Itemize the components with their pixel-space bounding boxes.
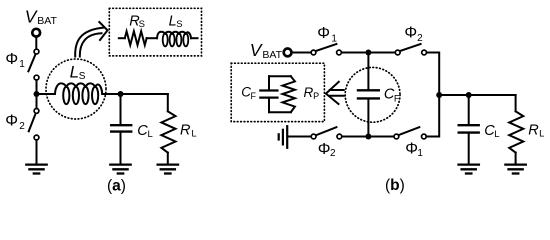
node B junction (CL tap) (118, 91, 124, 97)
label VBAT (a) (25, 6, 58, 27)
capacitor CF top plate (358, 89, 379, 91)
capacitor CL (b) top plate (459, 124, 479, 126)
svg-text:R: R (180, 123, 191, 139)
svg-text:BAT: BAT (262, 49, 282, 61)
switch PHI1 bottom (b) right contact (422, 134, 427, 139)
capacitor CF (box) top plate (260, 89, 277, 91)
switch PHI1 top (b) left contact (311, 50, 316, 55)
switch PHI2 top (b) left contact (395, 50, 400, 55)
label RL (b) (528, 123, 544, 140)
wire CL to ground (120, 133, 122, 164)
svg-text:1: 1 (19, 59, 25, 70)
capacitor CF (box) top lead (268, 76, 270, 89)
label PHI1 top (b) (317, 25, 337, 45)
capacitor CF (box) bottom plate (260, 96, 277, 98)
svg-text:Φ: Φ (404, 25, 417, 42)
label PHI2 (a) (5, 113, 25, 132)
wire node A to PHI2 (36, 94, 38, 108)
svg-text:L: L (70, 63, 79, 82)
label RL (a) (180, 123, 197, 140)
capacitor CL (a) bottom plate (111, 130, 131, 132)
wire RL to ground (167, 153, 169, 164)
double arrow shaft lower (330, 95, 344, 97)
dotted circle around CF (345, 67, 400, 122)
svg-text:Φ: Φ (405, 141, 418, 158)
svg-text:R: R (304, 85, 314, 100)
sideways ground (b) mid bar (282, 130, 284, 145)
wire corner down to RL (a) (167, 94, 169, 111)
wire CF branch bottom (367, 100, 369, 137)
svg-text:BAT: BAT (37, 15, 57, 27)
wire ground to PHI2 bottom (288, 136, 311, 138)
ground under CL (a) (110, 165, 130, 174)
label LS in box (169, 14, 183, 31)
arrow inner arc (80, 33, 102, 56)
wire CL (b) to ground (468, 134, 470, 164)
label CF in box (b) (241, 85, 256, 101)
switch PHI1 (a) top contact (34, 49, 39, 54)
box network bottom rail (269, 111, 291, 113)
label CL (a) (137, 123, 153, 140)
svg-text:(a): (a) (107, 177, 126, 194)
wire CF branch top (367, 53, 369, 90)
terminal VBAT (a) (32, 29, 40, 37)
switch PHI2 top (b) blade (400, 44, 421, 51)
switch PHI2 top (b) right contact (422, 50, 427, 55)
svg-text:L: L (148, 129, 153, 140)
svg-text:S: S (139, 19, 145, 30)
wire node A to inductor LS (37, 93, 56, 95)
wire terminal to PHI1 top (292, 52, 311, 54)
terminal VBAT (b) (284, 49, 292, 57)
wire box left to RS (119, 37, 125, 39)
switch PHI2 bottom (b) left contact (311, 134, 316, 139)
label VBAT (b) (250, 40, 283, 61)
wire PHI2 to ground (36, 140, 38, 163)
switch PHI2 bottom (b) right contact (337, 134, 342, 139)
label CF in circle (b) (384, 87, 400, 105)
node CF bottom junction (365, 134, 371, 140)
wire coil to box right (191, 37, 198, 39)
svg-text:Φ: Φ (317, 25, 330, 42)
switch PHI1 bottom (b) blade (399, 127, 420, 135)
wire PHI1 to node A (36, 80, 38, 94)
svg-text:S: S (79, 71, 86, 82)
wire RS to LS coil (147, 37, 157, 39)
wire PHI2 bottom to PHI1 bottom (342, 136, 394, 138)
svg-text:L: L (539, 128, 544, 139)
wire PHI2 to right bus corner (427, 53, 440, 96)
svg-text:2: 2 (19, 121, 25, 132)
svg-text:Φ: Φ (5, 51, 18, 68)
resistor RL (b) zigzag (509, 111, 523, 152)
switch PHI1 (a) bottom contact (34, 75, 39, 80)
svg-text:R: R (528, 123, 539, 139)
inset dotted box (a) (109, 8, 201, 56)
dotted circle around LS (46, 59, 106, 119)
switch PHI1 top (b) blade (316, 44, 337, 51)
switch PHI2 (a) top contact (34, 109, 39, 114)
node output junction (436, 92, 442, 98)
inductor LS (a) loops (63, 87, 69, 104)
label PHI1 bottom (b) (405, 141, 423, 159)
switch PHI1 bottom (b) left contact (394, 134, 399, 139)
wire RL (b) to ground (515, 153, 517, 164)
resistor RL (a) zigzag (161, 111, 175, 152)
switch PHI1 (a) blade (28, 55, 35, 71)
inset dotted box (b) (231, 63, 324, 121)
svg-text:1: 1 (417, 148, 423, 159)
ground under PHI2 (a) (26, 165, 46, 174)
wire corner down to RL (b) (515, 95, 517, 111)
inductor LS (a) humps (55, 83, 102, 94)
label CL (b) (484, 123, 499, 140)
switch PHI2 (a) bottom contact (34, 135, 39, 140)
wire output rail (439, 94, 515, 96)
label RP (box) (304, 85, 320, 101)
node top junction (CF top) (365, 50, 371, 56)
label RS in box (129, 14, 145, 31)
svg-text:L: L (191, 128, 196, 139)
capacitor CL (b) bottom plate (459, 131, 479, 133)
wire VBAT to switch PHI1 (35, 37, 37, 49)
svg-text:1: 1 (331, 34, 337, 45)
svg-text:2: 2 (417, 33, 423, 44)
arrow from LS circle to inset (outer arc) (75, 28, 103, 57)
wire PHI1 bottom to right bus corner (426, 95, 439, 137)
wire PHI1 to PHI2 top (342, 52, 396, 54)
sideways ground (b) tall bar (286, 126, 288, 148)
label PHI2 bottom (b) (318, 141, 336, 159)
svg-text:(b): (b) (385, 177, 405, 194)
resistor RS zigzag (125, 31, 147, 45)
double arrow shaft upper (330, 89, 344, 91)
arrow head (99, 22, 107, 40)
wire CL branch (b) (468, 95, 470, 124)
wire node B down to CL (120, 94, 122, 124)
inductor LS (box) humps (157, 32, 191, 39)
svg-text:Φ: Φ (5, 113, 18, 130)
wire LS to RL corner (a) (102, 93, 168, 95)
svg-text:Φ: Φ (318, 141, 331, 158)
svg-text:2: 2 (330, 148, 336, 159)
box network top rail (269, 75, 291, 77)
switch PHI2 bottom (b) blade (317, 127, 337, 135)
capacitor CF bottom plate (358, 97, 379, 99)
ground under RL (b) (505, 165, 525, 174)
svg-text:L: L (494, 129, 499, 140)
ground under RL (a) (158, 165, 178, 174)
sideways ground (b) short bar (278, 134, 280, 139)
resistor RP (box) zigzag (283, 76, 295, 112)
label PHI1 (a) (5, 51, 25, 70)
svg-text:P: P (313, 91, 319, 101)
capacitor CF (box) bottom lead (268, 99, 270, 113)
label LS in circle (a) (70, 63, 86, 82)
node A junction (34, 91, 40, 97)
switch PHI2 (a) blade (29, 115, 35, 131)
inductor LS (box) loops (163, 33, 168, 46)
label PHI2 top (b) (404, 25, 423, 44)
node CL tap (b) (466, 92, 472, 98)
capacitor CL (a) top plate (111, 124, 131, 126)
svg-text:F: F (251, 91, 257, 101)
switch PHI1 top (b) right contact (337, 50, 342, 55)
ground under CL (b) (459, 165, 479, 174)
double arrow to box (head) (326, 82, 339, 104)
svg-text:S: S (176, 19, 182, 30)
